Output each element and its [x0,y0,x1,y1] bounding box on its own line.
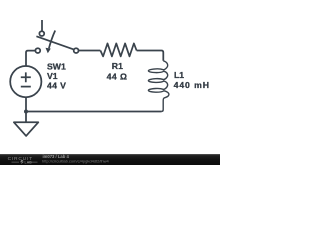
svg-text:44 Ω: 44 Ω [107,72,128,82]
svg-text:L1: L1 [174,70,184,80]
SW1 lever [36,36,73,49]
wire V1 plus to switch [26,51,35,66]
switch SW1 [35,31,78,54]
resistor R1 [100,43,136,56]
SW1 left throw terminal [35,48,40,53]
SW1 actuation arrow [49,31,55,49]
wire V1 minus to ground node [25,97,27,122]
svg-text:R1: R1 [112,61,123,71]
ground [14,122,38,136]
svg-text:SW1: SW1 [47,61,66,71]
svg-text:440 mH: 440 mH [174,80,210,90]
node junction dot [24,110,28,114]
labels [47,61,210,91]
svg-text:44 V: 44 V [47,81,66,91]
inductor L1 [148,61,169,112]
bottom wire [26,111,161,113]
wire stub above switch [41,20,43,31]
svg-text:V1: V1 [47,71,58,81]
V1 plus sign [21,72,31,82]
footer watermark bar [0,154,220,165]
SW1 top throw terminal [39,31,44,36]
SW1 right common terminal [74,48,79,53]
svg-text:LAB: LAB [25,161,33,165]
wire switch to resistor [79,50,101,52]
voltage source V1 [10,66,41,97]
wire resistor to inductor [137,51,164,61]
svg-text:http://circuitlab.com/c/4pgkd4: http://circuitlab.com/c/4pgkd4dt2/lhw4 [42,159,109,164]
V1 minus sign [21,86,31,88]
